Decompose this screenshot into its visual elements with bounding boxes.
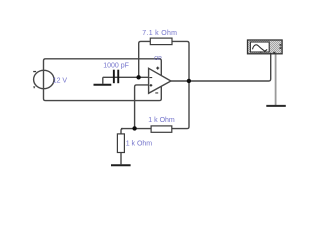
svg-text:12 V: 12 V: [53, 78, 68, 85]
svg-text:1 k Ohm: 1 k Ohm: [148, 117, 175, 124]
svg-text:1000 pF: 1000 pF: [103, 62, 129, 69]
svg-text:7.1 k Ohm: 7.1 k Ohm: [142, 30, 177, 37]
svg-text:OP: OP: [154, 56, 162, 62]
svg-text:1 k Ohm: 1 k Ohm: [126, 141, 153, 148]
